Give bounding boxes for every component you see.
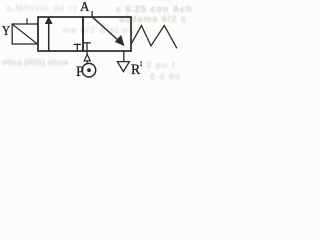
- faint bleed-through text mid-right: [62, 25, 135, 35]
- faint bleed-through text top-right line2: [119, 14, 187, 24]
- pressure source arrow triangle: [84, 54, 90, 61]
- blocked port T (left square): [74, 44, 80, 51]
- flow arrow (left square, P to A): [45, 16, 53, 51]
- speck right of R: [140, 61, 142, 66]
- solenoid lead tick: [26, 19, 28, 24]
- faint bleed-through text bottom-right: [146, 60, 176, 70]
- solenoid diagonal: [13, 25, 37, 44]
- connector to source circle: [86, 61, 88, 64]
- label Y: [2, 24, 10, 40]
- pressure source dot: [87, 68, 91, 72]
- label P: [76, 64, 84, 81]
- pressure source circle: [82, 63, 96, 77]
- label R: [131, 62, 140, 79]
- solenoid box: [12, 24, 38, 44]
- valve body right square: [83, 17, 131, 51]
- return spring: [132, 26, 177, 48]
- valve body left square: [38, 17, 83, 51]
- port A stub: [91, 12, 93, 17]
- flow arrow diagonal (right square, A to R): [93, 18, 124, 46]
- faint bleed-through text top-right: [116, 4, 193, 14]
- blocked port T (right square): [84, 43, 90, 51]
- port P stem: [86, 51, 88, 56]
- faint bleed-through text bottom-right line2: [150, 72, 181, 82]
- faint bleed-through text bottom-left: [2, 57, 68, 67]
- port R stem: [123, 51, 125, 62]
- label A: [80, 0, 89, 16]
- faint bleed-through text top-left: [6, 3, 78, 13]
- exhaust triangle R: [117, 62, 129, 72]
